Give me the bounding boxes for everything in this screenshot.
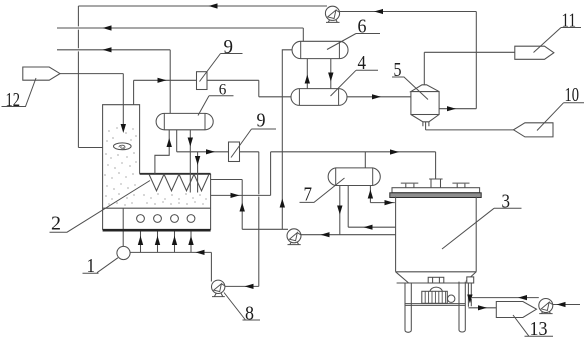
valve 9b body [229, 142, 240, 162]
wire vent line 3 y49.8 [57, 49, 170, 51]
wire exchanger 7 top tee drop [364, 152, 366, 168]
tank 3 right leg [459, 282, 465, 332]
wire feed drop into reactor top [122, 74, 124, 127]
wire exchanger 6a bottom nozzle to circulation line [176, 130, 178, 152]
wire tank center feed pipe x435.6 [435, 152, 437, 179]
wire transfer line y151.8 to sedimentation tank [271, 151, 436, 153]
wire riser x282.3 from pump header to exchanger 6b left [282, 50, 292, 230]
arrow up burner 3 [172, 236, 177, 245]
wire riser x242.2 [241, 180, 243, 230]
wire exchanger 4 outlet to cyclone 5 [347, 96, 411, 98]
arrow on top right line pointing left [374, 9, 383, 14]
fan pump top [325, 6, 339, 22]
arrow down on pipe x197.6 [195, 156, 200, 165]
svg-text:8: 8 [245, 304, 254, 325]
label 12 leader [2, 78, 37, 107]
wire tank draw line y227.2 [348, 226, 395, 228]
wire burner riser 4 [190, 231, 192, 252]
reactor burner circle 1 [137, 215, 145, 223]
wire feed line from flag 12 [60, 73, 123, 75]
wire drop x258.8 down to pump8 suction (gap at y195.4) [258, 152, 260, 287]
wire reactor stirrer inlet y147.5 [78, 147, 102, 149]
arrow up burner 1 [138, 236, 143, 245]
wire offgas line y80.3 valve 9a to corner [207, 79, 259, 81]
wire outlet elbow to flag 13 [468, 307, 496, 309]
label 2 leader [50, 181, 151, 233]
arrow up on connector x307.3 [305, 75, 310, 84]
arrow on burner header pointing left [196, 250, 205, 255]
label 10 leader [537, 103, 584, 131]
arrow up into exchanger 7 [368, 190, 373, 199]
arrow into tank pump pointing left [321, 232, 330, 237]
wire burner riser 2 [157, 231, 159, 252]
wire pump header y229.3 [242, 228, 288, 230]
svg-text:7: 7 [304, 185, 313, 206]
tank 3 right outlet flange [467, 277, 474, 283]
heat exchanger 6b shell [292, 41, 348, 58]
wire burner riser 1 [140, 231, 142, 252]
arrow into pump BR pointing left [557, 302, 566, 307]
stipple dots in reactor [104, 128, 206, 206]
heat exchanger 6a shell [156, 113, 213, 129]
svg-text:5: 5 [394, 60, 402, 81]
reactor stirrer spiral [119, 145, 125, 149]
pipe from circulation line down into grate box [197, 152, 199, 193]
arrow on pump BR discharge pointing left [518, 295, 527, 300]
svg-text:3: 3 [502, 192, 511, 213]
wire pump BR suction y304.5 [553, 304, 580, 306]
svg-text:2: 2 [51, 214, 61, 235]
label 4 leader [331, 70, 379, 96]
wire reactor side outlet y195.4 [211, 194, 271, 196]
arrow up on riser x242.2 [240, 203, 245, 212]
arrow down on connector x330.8 [328, 73, 333, 82]
wire vent line 2 y28 [57, 27, 303, 29]
wire circulation line y151.8 to valve 9b [177, 151, 229, 153]
wire pump 8 suction horizontal y286.4 [225, 285, 259, 287]
wire cyclone dipleg [425, 122, 427, 130]
wire recycle top line left segment (pump to reactor downcomer) [78, 5, 327, 7]
wire cyclone top pipe [423, 52, 425, 85]
label 13 leader [513, 315, 553, 336]
wire connector 6b-4 right x330.8 [330, 59, 332, 89]
svg-text:12: 12 [6, 90, 21, 111]
wire cyclone gas outlet horizontal y108.7 [439, 108, 476, 110]
wire pump 1 connection to reactor bottom [122, 208, 124, 247]
label 9b leader [231, 129, 276, 158]
valve 9a body [197, 72, 208, 90]
arrow into pump 8 pointing left [245, 284, 254, 289]
wire pump BR discharge y297.6 [471, 297, 539, 299]
label 6b leader [327, 34, 380, 50]
cyclone separator 5 [411, 85, 439, 126]
wire reactor top offgas riser x133.6 [133, 80, 135, 104]
arrow on top recycle line pointing left [209, 3, 218, 8]
wire burner header y252.4 [123, 251, 211, 253]
wire feed into exchanger 4 left end [259, 96, 292, 98]
label 1 leader [83, 258, 119, 274]
label 7 leader [300, 178, 345, 202]
wire circulation line y151.8 after valve 9b [240, 151, 259, 153]
arrow down on pipe x190.3 [188, 138, 193, 147]
arrow on vent line 2 pointing left [103, 25, 112, 30]
arrow on circulation line pointing right [206, 149, 215, 154]
wire exchanger 7 right bottom pipe [369, 186, 371, 203]
flag 12 raw material inlet [23, 67, 60, 80]
wire riser x270.6 [270, 152, 272, 196]
pipe exchanger 6a down into grate box [189, 130, 191, 193]
tank circulation pump [287, 229, 301, 245]
wire downcomer x78.4 to reactor (gaps at crossings) [77, 6, 79, 148]
tank 3 agitator motor [422, 287, 455, 303]
pump bottom right [539, 299, 553, 314]
reactor 2 grate sawtooth [149, 174, 209, 191]
wire corner drop x258.8 to y96.8 [258, 80, 260, 97]
heat exchanger 4 shell [291, 89, 347, 106]
wire top line right segment (corner x476 to fan) [340, 11, 477, 13]
label 5 leader [392, 77, 428, 100]
label 8 leader [224, 293, 260, 321]
arrow up on riser x282.3 [280, 199, 285, 208]
svg-text:4: 4 [358, 53, 367, 74]
wire offgas line y80.3 to valve 9a [134, 79, 197, 81]
reactor stirrer ellipse [114, 143, 132, 150]
heat exchanger 7 shell [328, 168, 380, 186]
arrow to flag 13 pointing right [478, 305, 487, 310]
svg-text:9: 9 [257, 111, 266, 132]
flag 13 product outlet [496, 302, 536, 318]
tank 3 right nozzle [452, 183, 469, 188]
wire return into tank y202.6 [370, 202, 394, 204]
arrow on cyclone outlet pointing right [447, 106, 456, 111]
wire tank pump suction y234.7 [301, 234, 395, 236]
arrow on offgas line pointing right [158, 78, 167, 83]
arrow up into exchanger 6a [167, 138, 172, 147]
pump 8 [212, 280, 225, 297]
reactor burner circle 2 [154, 215, 162, 223]
wire drop from vent line 3 to exchanger 6a top [169, 50, 171, 114]
wire tank bottom outlet downpipe (double) [468, 283, 471, 307]
wire reactor side line y179.5 [211, 179, 243, 181]
svg-text:13: 13 [530, 319, 548, 340]
svg-text:11: 11 [562, 11, 577, 32]
reactor 2 vessel outline [103, 105, 211, 231]
pipe exchanger 6a left bottom with elbow into grate box [155, 130, 169, 174]
flag 10 product outlet [514, 123, 554, 137]
tank 3 center nozzle [429, 179, 443, 188]
arrow on reactor side outlet pointing right [231, 193, 240, 198]
arrow up burner 4 [188, 236, 193, 245]
arrow feed into reactor pointing down [121, 124, 126, 133]
tank 3 left nozzle [401, 183, 419, 188]
arrow on transfer line pointing right [390, 149, 399, 154]
wire pump 8 discharge riser x211.4 [210, 252, 212, 281]
wire connector 6b-4 left x307.3 [306, 59, 308, 89]
wire cyclone bottoms to flag 10 [426, 129, 514, 131]
arrow on vent line 3 pointing left [103, 47, 112, 52]
svg-text:6: 6 [219, 81, 227, 98]
arrow down on exchanger7 left pipe [337, 206, 342, 215]
arrow on tank draw line pointing left [364, 225, 373, 230]
svg-text:9: 9 [224, 37, 234, 58]
arrow into tank wall pointing right [385, 200, 394, 205]
label 3 leader [442, 208, 522, 249]
tank 3 left leg [405, 283, 411, 332]
label 9a leader [200, 54, 243, 82]
arrow up burner 2 [155, 236, 160, 245]
wire exchanger 7 mid bottom pipe [347, 186, 349, 228]
arrow exchanger4 to cyclone pointing right [372, 94, 381, 99]
sedimentation tank 3 [390, 188, 481, 283]
label 6a leader [198, 96, 234, 116]
wire riser from exchanger 6b top to vent line 2 [302, 28, 304, 42]
flag 11 product outlet [515, 46, 554, 59]
pump 1 circle [117, 246, 130, 259]
arrow down on tank outlet pipe [467, 295, 472, 304]
wire vertical riser x476 from cyclone outlet [475, 12, 477, 109]
wire cyclone overhead to flag 11 [424, 51, 515, 53]
reactor burner circle 3 [171, 215, 179, 223]
label 11 leader [534, 28, 582, 53]
svg-text:1: 1 [87, 256, 96, 277]
tank 3 bottom outlet flange [428, 277, 444, 283]
reactor burner circle 4 [187, 215, 195, 223]
wire burner riser 3 [174, 231, 176, 252]
svg-text:6: 6 [358, 17, 367, 38]
wire exchanger 7 left bottom pipe to pump suction [339, 186, 341, 235]
tank 3 support shelf [405, 304, 465, 306]
svg-text:10: 10 [565, 85, 580, 106]
